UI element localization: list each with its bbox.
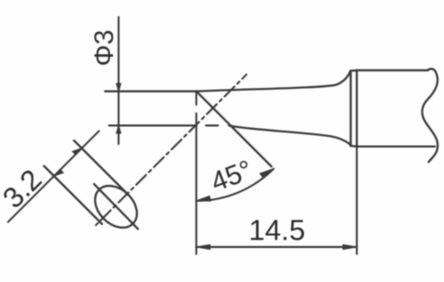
sleeve front face bbox=[356, 70, 358, 146]
svg-text:Φ3: Φ3 bbox=[89, 30, 119, 67]
svg-text:45°: 45° bbox=[206, 154, 256, 198]
arrowhead 14.5 right bbox=[343, 245, 357, 250]
tip bottom taper outline bbox=[229, 126, 351, 146]
sleeve bottom line bbox=[357, 145, 435, 147]
dimension line C for 3.2 bbox=[8, 131, 99, 222]
svg-text:14.5: 14.5 bbox=[249, 215, 305, 247]
break S-curve bbox=[422, 69, 437, 162]
arrowhead 3.2 lower bbox=[54, 169, 63, 176]
arrowhead arc left bbox=[196, 196, 210, 201]
vertical extension line right bbox=[356, 147, 358, 255]
sleeve bottom connect bbox=[351, 145, 357, 148]
sleeve top connect bbox=[351, 69, 357, 72]
svg-text:3.2: 3.2 bbox=[0, 164, 48, 215]
extension line E lower bbox=[44, 166, 102, 224]
arrowhead Phi3 bottom bbox=[116, 126, 120, 134]
wire bottom extension dash bbox=[206, 124, 218, 126]
cut face line A bbox=[196, 91, 271, 166]
arrowhead Phi3 top bbox=[116, 84, 120, 92]
angle dimension arc 45 bbox=[196, 169, 273, 201]
arrowhead 14.5 left bbox=[196, 245, 210, 250]
dimension line 14.5 bbox=[196, 246, 356, 248]
rim edge at shoulder bbox=[350, 72, 352, 146]
ellipse cut face foldout bbox=[87, 178, 145, 236]
wire top extension line bbox=[105, 90, 196, 92]
sleeve top line bbox=[357, 69, 428, 71]
dimension line Phi3 vertical bbox=[118, 17, 120, 144]
centerline B dash-dot bbox=[96, 75, 247, 226]
arrowhead arc right bbox=[260, 169, 274, 178]
vertical extension line at tip bbox=[195, 91, 197, 104]
major axis line of ellipse bbox=[94, 184, 138, 229]
tip top taper outline bbox=[196, 71, 350, 92]
arrowhead 3.2 upper bbox=[73, 148, 82, 155]
extension line F upper bbox=[74, 141, 129, 196]
wire bottom extension line bbox=[109, 124, 197, 126]
